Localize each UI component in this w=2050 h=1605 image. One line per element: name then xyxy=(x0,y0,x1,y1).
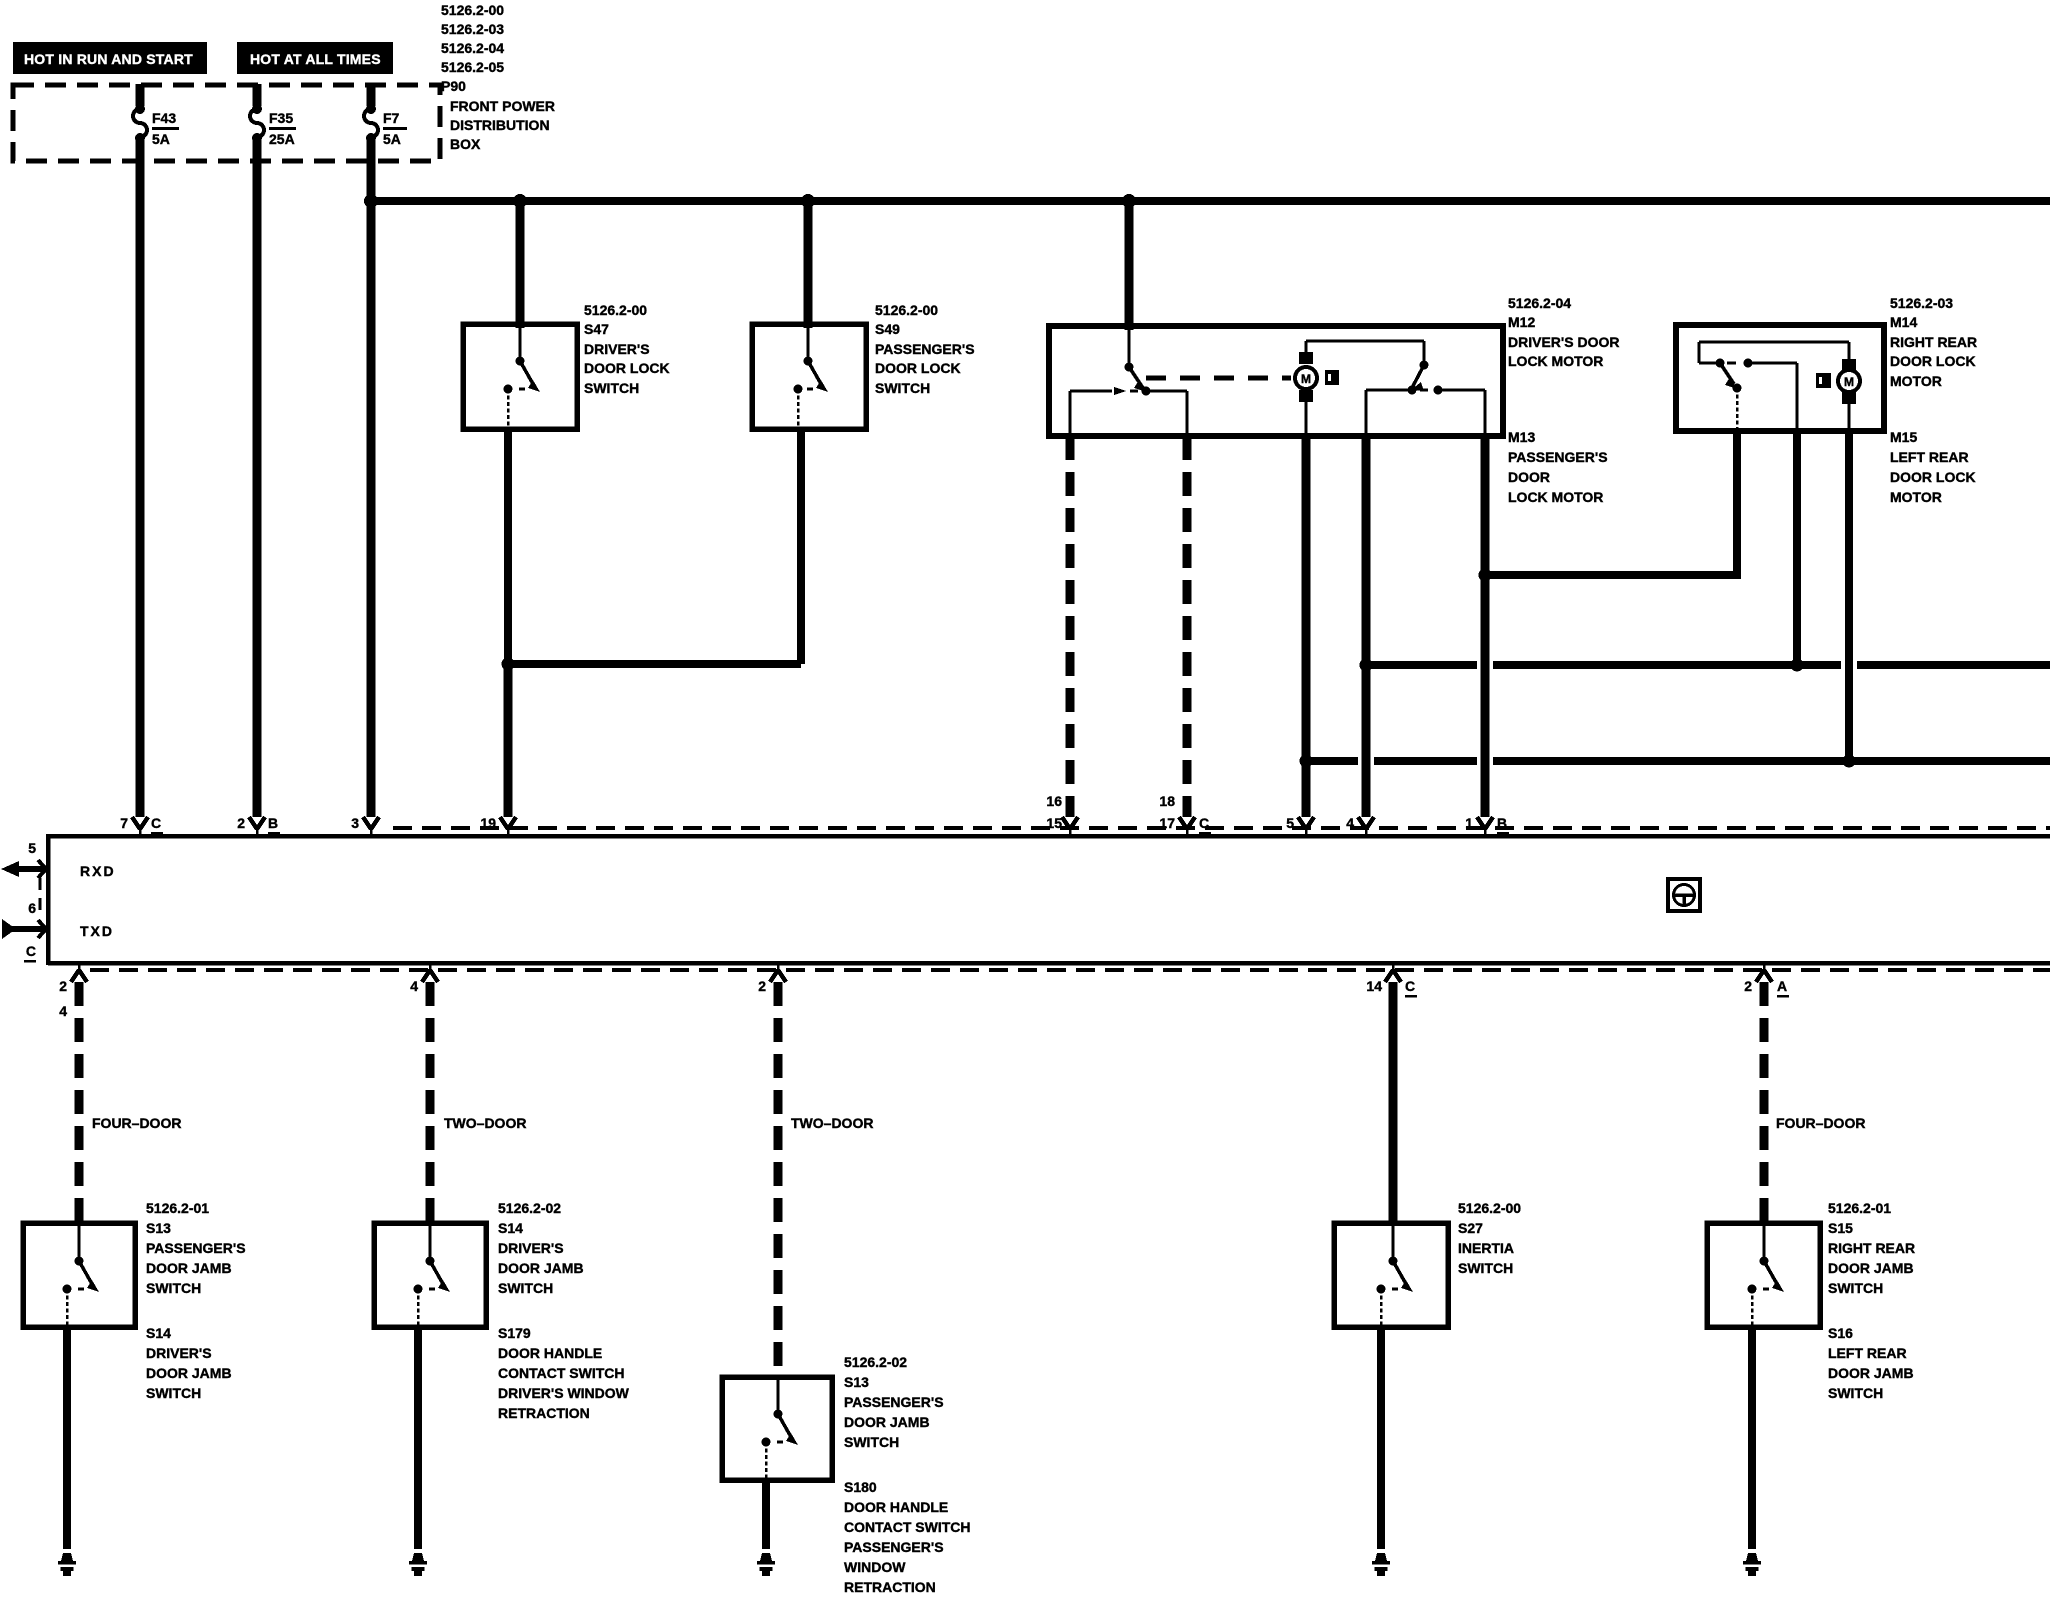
pin 1 arrow and label B xyxy=(1465,815,1509,836)
svg-text:S15: S15 xyxy=(1828,1220,1853,1236)
wire y575 horizontal to pin1 wire xyxy=(1485,571,1741,579)
P90 front power distribution box (dashed) xyxy=(13,85,440,161)
svg-text:RETRACTION: RETRACTION xyxy=(844,1579,936,1595)
svg-text:DOOR HANDLE: DOOR HANDLE xyxy=(844,1499,948,1515)
wire S47 output down xyxy=(504,429,512,664)
pin 6 TXD right arrow xyxy=(2,900,114,939)
svg-text:SWITCH: SWITCH xyxy=(1828,1385,1883,1401)
svg-text:5126.2-04: 5126.2-04 xyxy=(441,40,504,56)
svg-text:M: M xyxy=(1844,375,1854,389)
pin 14 arrow and label C xyxy=(1366,963,1417,998)
svg-text:DRIVER'S: DRIVER'S xyxy=(584,341,650,357)
wire dashed mechanical link switch to motor M12 xyxy=(1146,376,1291,381)
svg-text:PASSENGER'S: PASSENGER'S xyxy=(1508,449,1608,465)
wire y761 horizontal from pin5 xyxy=(1306,757,2050,765)
node junction M14-motor/y761 xyxy=(1843,755,1856,768)
wire pin2 to S13 two-door (dashed) xyxy=(774,982,783,1377)
svg-text:SWITCH: SWITCH xyxy=(1458,1260,1513,1276)
pin 2 arrow and label A (right) xyxy=(1744,963,1789,998)
svg-text:16: 16 xyxy=(1046,793,1062,809)
label S27 xyxy=(1458,1200,1521,1276)
svg-text:DRIVER'S WINDOW: DRIVER'S WINDOW xyxy=(498,1385,630,1401)
pin 5 arrow xyxy=(1286,815,1314,836)
svg-text:5126.2-02: 5126.2-02 xyxy=(498,1200,561,1216)
svg-text:S16: S16 xyxy=(1828,1325,1853,1341)
svg-text:RIGHT REAR: RIGHT REAR xyxy=(1890,334,1977,350)
wire M12 box to pin 16/15 (dashed) xyxy=(1066,436,1075,817)
svg-text:19: 19 xyxy=(480,815,496,831)
wire power bus xyxy=(371,197,2050,205)
svg-text:DOOR LOCK: DOOR LOCK xyxy=(1890,469,1976,485)
svg-text:LOCK MOTOR: LOCK MOTOR xyxy=(1508,353,1603,369)
svg-text:DOOR JAMB: DOOR JAMB xyxy=(146,1365,232,1381)
clutch glyph right of motor M12 xyxy=(1325,370,1339,385)
svg-text:PASSENGER'S: PASSENGER'S xyxy=(146,1240,246,1256)
svg-text:2: 2 xyxy=(59,978,67,994)
svg-text:3: 3 xyxy=(351,815,359,831)
svg-text:LEFT REAR: LEFT REAR xyxy=(1890,449,1969,465)
svg-text:S13: S13 xyxy=(146,1220,171,1236)
svg-text:INERTIA: INERTIA xyxy=(1458,1240,1514,1256)
svg-text:S14: S14 xyxy=(146,1325,171,1341)
inertia switch S27 xyxy=(1334,1223,1448,1327)
wire M13 to pin 1 xyxy=(1481,436,1490,817)
svg-text:5126.2-03: 5126.2-03 xyxy=(441,21,504,37)
node junction bus/S47 xyxy=(513,194,527,208)
switch M13 internal (right) xyxy=(1366,361,1485,435)
label S15 xyxy=(1828,1200,1915,1296)
svg-text:1: 1 xyxy=(1465,815,1473,831)
svg-text:2: 2 xyxy=(1744,978,1752,994)
pin 18/17 arrow and label C xyxy=(1159,793,1211,836)
svg-text:DOOR JAMB: DOOR JAMB xyxy=(844,1414,930,1430)
wire bus to M12 box xyxy=(1125,201,1134,330)
pin 3 arrow xyxy=(351,815,379,836)
wire stub from HOT AT ALL TIMES to fuse F35 xyxy=(253,84,262,106)
wire pin2/4 to S13 four-door (dashed) xyxy=(75,982,84,1223)
wire M12 box to pin 18/17 (dashed) xyxy=(1183,436,1192,817)
svg-text:SWITCH: SWITCH xyxy=(146,1280,201,1296)
svg-text:M12: M12 xyxy=(1508,314,1535,330)
wire M12 motor to pin 5 xyxy=(1302,436,1311,817)
power label HOT IN RUN AND START xyxy=(13,42,207,74)
wire dashed connector stub left xyxy=(39,878,42,912)
svg-text:FRONT POWER: FRONT POWER xyxy=(450,98,555,114)
label S16 xyxy=(1828,1325,1914,1401)
svg-text:S180: S180 xyxy=(844,1479,877,1495)
switch S47 driver's door lock switch xyxy=(463,324,577,429)
svg-text:CONTACT SWITCH: CONTACT SWITCH xyxy=(844,1519,971,1535)
wire motor M12 top loop to right switch xyxy=(1306,341,1424,363)
svg-text:S49: S49 xyxy=(875,321,900,337)
svg-text:DOOR JAMB: DOOR JAMB xyxy=(498,1260,584,1276)
svg-text:17: 17 xyxy=(1159,815,1175,831)
switch M12 internal (left) xyxy=(1070,328,1187,434)
wire stub from HOT IN RUN AND START to fuse F43 xyxy=(136,84,145,106)
svg-text:P90: P90 xyxy=(441,78,466,94)
svg-text:DOOR LOCK: DOOR LOCK xyxy=(584,360,670,376)
svg-text:F43: F43 xyxy=(152,110,176,126)
svg-text:S179: S179 xyxy=(498,1325,531,1341)
node junction pin5/y761 xyxy=(1300,755,1313,768)
svg-text:C: C xyxy=(1405,978,1415,994)
power label HOT AT ALL TIMES xyxy=(237,42,393,74)
wire pin4 to S14 (dashed) xyxy=(426,982,435,1223)
svg-text:5: 5 xyxy=(1286,815,1294,831)
wire pin2 to S15 (dashed) xyxy=(1760,982,1769,1223)
svg-text:5A: 5A xyxy=(383,131,401,147)
svg-text:CONTACT SWITCH: CONTACT SWITCH xyxy=(498,1365,625,1381)
svg-text:4: 4 xyxy=(59,1003,67,1019)
node junction F7/bus xyxy=(364,194,378,208)
wire joining S47/S49 outputs xyxy=(508,660,801,668)
svg-text:SWITCH: SWITCH xyxy=(584,380,639,396)
wire M14 centre leg down to y665 xyxy=(1793,431,1801,665)
SECTION: bus xyxy=(364,194,2050,208)
svg-text:C: C xyxy=(151,815,161,831)
wire M14 left leg down to y575 xyxy=(1733,431,1741,575)
svg-text:M13: M13 xyxy=(1508,429,1535,445)
pin 4 arrow (driver jamb) xyxy=(410,963,438,994)
svg-text:C: C xyxy=(1199,815,1209,831)
svg-text:M14: M14 xyxy=(1890,314,1917,330)
svg-text:M: M xyxy=(1301,372,1311,386)
svg-text:5A: 5A xyxy=(152,131,170,147)
svg-text:25A: 25A xyxy=(269,131,295,147)
svg-text:6: 6 xyxy=(28,900,36,916)
ground (S13 two-door) xyxy=(757,1553,775,1576)
jamb switch S13 (four-door passenger) xyxy=(23,1223,135,1327)
wire pin14 to S27 xyxy=(1389,982,1398,1223)
wire S15 to ground xyxy=(1748,1327,1756,1549)
fuse F7 5A xyxy=(364,104,407,147)
svg-text:WINDOW: WINDOW xyxy=(844,1559,906,1575)
svg-text:5126.2-02: 5126.2-02 xyxy=(844,1354,907,1370)
node junction M14-centre/y665 xyxy=(1791,659,1804,672)
svg-text:DOOR HANDLE: DOOR HANDLE xyxy=(498,1345,602,1361)
svg-text:DRIVER'S: DRIVER'S xyxy=(498,1240,564,1256)
svg-text:2: 2 xyxy=(237,815,245,831)
svg-text:18: 18 xyxy=(1159,793,1175,809)
motor assembly box M14/M15 xyxy=(1676,325,1884,431)
svg-text:DOOR LOCK: DOOR LOCK xyxy=(1890,353,1976,369)
svg-text:DOOR JAMB: DOOR JAMB xyxy=(1828,1260,1914,1276)
svg-text:HOT IN RUN AND START: HOT IN RUN AND START xyxy=(24,51,193,67)
svg-text:HOT AT ALL TIMES: HOT AT ALL TIMES xyxy=(250,51,381,67)
pin 5 RXD left arrow xyxy=(1,840,116,879)
svg-text:RIGHT REAR: RIGHT REAR xyxy=(1828,1240,1915,1256)
switch S49 passenger's door lock switch xyxy=(752,324,866,429)
svg-text:5126.2-00: 5126.2-00 xyxy=(584,302,647,318)
svg-text:SWITCH: SWITCH xyxy=(146,1385,201,1401)
svg-text:A: A xyxy=(1777,978,1787,994)
node junction bus/M12 xyxy=(1122,194,1136,208)
label S180 xyxy=(844,1479,971,1595)
wire S13 two-door to ground xyxy=(762,1480,770,1549)
svg-text:5126.2-05: 5126.2-05 xyxy=(441,59,504,75)
label S49 xyxy=(875,302,975,396)
motor M12 symbol xyxy=(1295,352,1317,434)
svg-text:SWITCH: SWITCH xyxy=(844,1434,899,1450)
node junction bus/S49 xyxy=(801,194,815,208)
wire y665 horizontal from pin4 xyxy=(1366,661,2050,669)
wire S14 to ground xyxy=(414,1327,422,1549)
pin 19 arrow xyxy=(480,815,516,836)
svg-text:5126.2-01: 5126.2-01 xyxy=(146,1200,209,1216)
svg-text:DRIVER'S: DRIVER'S xyxy=(146,1345,212,1361)
wire S27 to ground xyxy=(1377,1327,1385,1549)
svg-text:2: 2 xyxy=(758,978,766,994)
jamb switch S15 (right rear) xyxy=(1707,1223,1820,1327)
label M13 xyxy=(1508,429,1608,505)
SECTION: bottom xyxy=(23,963,1915,1595)
svg-text:FOUR–DOOR: FOUR–DOOR xyxy=(1776,1115,1865,1131)
ground (S15) xyxy=(1743,1553,1761,1576)
svg-text:DOOR: DOOR xyxy=(1508,469,1550,485)
label M15 xyxy=(1890,429,1976,505)
ground (S13 four-door) xyxy=(58,1553,76,1576)
wire fuse F7 to bus and module pin 3 xyxy=(367,138,376,817)
svg-text:B: B xyxy=(1497,815,1507,831)
svg-text:RXD: RXD xyxy=(80,863,116,879)
svg-text:TWO–DOOR: TWO–DOOR xyxy=(444,1115,526,1131)
svg-text:RETRACTION: RETRACTION xyxy=(498,1405,590,1421)
svg-text:PASSENGER'S: PASSENGER'S xyxy=(844,1394,944,1410)
label S13 two-door xyxy=(844,1354,944,1450)
wire bus to S47 xyxy=(516,201,525,328)
jamb switch S14 (two-door driver) xyxy=(374,1223,486,1327)
svg-text:B: B xyxy=(268,815,278,831)
wire to module pin 19 xyxy=(504,664,513,817)
wire S13 to ground xyxy=(63,1327,71,1549)
fuse F43 5A xyxy=(133,104,179,147)
svg-text:15: 15 xyxy=(1046,815,1062,831)
wire fuse F43 to module pin 7 xyxy=(136,138,145,817)
ground (S14 two-door) xyxy=(409,1553,427,1576)
svg-text:SWITCH: SWITCH xyxy=(498,1280,553,1296)
svg-text:F7: F7 xyxy=(383,110,400,126)
label S14 (shared ground note) xyxy=(146,1325,232,1401)
switch M14 internal xyxy=(1699,342,1849,429)
wire M14 motor leg down to y761 xyxy=(1845,431,1853,761)
label M14 xyxy=(1890,295,1977,389)
svg-text:5126.2-00: 5126.2-00 xyxy=(1458,1200,1521,1216)
label C (left connector) xyxy=(24,943,36,963)
svg-text:5126.2-00: 5126.2-00 xyxy=(875,302,938,318)
label S14 two-door xyxy=(498,1200,584,1296)
pin 7 arrow and label C xyxy=(120,815,163,836)
clutch glyph left of motor M14 xyxy=(1816,373,1831,388)
label P90 FRONT POWER DISTRIBUTION BOX xyxy=(441,2,555,152)
svg-text:BOX: BOX xyxy=(450,136,481,152)
label S13 four-door xyxy=(146,1200,246,1296)
svg-text:DRIVER'S DOOR: DRIVER'S DOOR xyxy=(1508,334,1619,350)
motor M14 symbol xyxy=(1838,342,1860,429)
svg-text:DISTRIBUTION: DISTRIBUTION xyxy=(450,117,550,133)
node junction pin4/y665 xyxy=(1360,659,1373,672)
label S179 xyxy=(498,1325,630,1421)
SECTION: switches xyxy=(463,201,975,817)
wire S49 output down xyxy=(797,429,805,664)
svg-text:LOCK MOTOR: LOCK MOTOR xyxy=(1508,489,1603,505)
steering wheel icon xyxy=(1668,879,1700,911)
pin 2 arrow and label B xyxy=(237,815,280,836)
wire M13 to pin 4 xyxy=(1362,436,1371,817)
svg-text:SWITCH: SWITCH xyxy=(875,380,930,396)
svg-text:5126.2-04: 5126.2-04 xyxy=(1508,295,1571,311)
node junction S47/S49 xyxy=(502,658,515,671)
SECTION: motors xyxy=(1049,201,2050,817)
svg-text:DOOR LOCK: DOOR LOCK xyxy=(875,360,961,376)
wire stub from HOT AT ALL TIMES to fuse F7 xyxy=(367,84,376,106)
SECTION: module xyxy=(1,793,2050,970)
svg-text:S27: S27 xyxy=(1458,1220,1483,1236)
motor assembly box M12/M13 xyxy=(1049,326,1503,436)
svg-text:5126.2-03: 5126.2-03 xyxy=(1890,295,1953,311)
node junction pin1/y575 xyxy=(1479,569,1492,582)
svg-text:5: 5 xyxy=(28,840,36,856)
wire connector dashed line (bottom) xyxy=(90,968,2050,972)
svg-text:MOTOR: MOTOR xyxy=(1890,373,1942,389)
pin 16/15 arrow xyxy=(1046,793,1078,836)
svg-text:M15: M15 xyxy=(1890,429,1917,445)
general module (door lock control unit) box xyxy=(48,834,2050,965)
svg-text:LEFT REAR: LEFT REAR xyxy=(1828,1345,1907,1361)
SECTION: top power xyxy=(13,2,555,817)
svg-text:S13: S13 xyxy=(844,1374,869,1390)
svg-text:5126.2-01: 5126.2-01 xyxy=(1828,1200,1891,1216)
svg-text:FOUR–DOOR: FOUR–DOOR xyxy=(92,1115,181,1131)
svg-text:14: 14 xyxy=(1366,978,1382,994)
label M12 xyxy=(1508,295,1619,369)
wire fuse F35 to module pin 2 xyxy=(253,138,262,817)
pin 2 arrow (passenger jamb two-door) xyxy=(758,963,786,994)
fuse F35 25A xyxy=(250,104,296,147)
svg-text:5126.2-00: 5126.2-00 xyxy=(441,2,504,18)
svg-text:4: 4 xyxy=(1346,815,1354,831)
ground (S27) xyxy=(1372,1553,1390,1576)
svg-text:PASSENGER'S: PASSENGER'S xyxy=(844,1539,944,1555)
pin 4 arrow xyxy=(1346,815,1374,836)
svg-text:SWITCH: SWITCH xyxy=(1828,1280,1883,1296)
svg-text:DOOR JAMB: DOOR JAMB xyxy=(1828,1365,1914,1381)
label S47 xyxy=(584,302,670,396)
svg-text:F35: F35 xyxy=(269,110,293,126)
svg-text:TXD: TXD xyxy=(80,923,114,939)
jamb switch S13 (two-door passenger) xyxy=(722,1377,832,1480)
svg-text:S47: S47 xyxy=(584,321,609,337)
svg-text:S14: S14 xyxy=(498,1220,523,1236)
svg-text:DOOR JAMB: DOOR JAMB xyxy=(146,1260,232,1276)
wire bus to S49 xyxy=(804,201,813,328)
svg-text:4: 4 xyxy=(410,978,418,994)
wire connector C dashed line (top) xyxy=(393,826,2050,830)
svg-text:C: C xyxy=(26,943,36,959)
svg-text:TWO–DOOR: TWO–DOOR xyxy=(791,1115,873,1131)
pin 2/4 arrow (bottom left) xyxy=(59,963,87,1019)
svg-text:MOTOR: MOTOR xyxy=(1890,489,1942,505)
svg-text:PASSENGER'S: PASSENGER'S xyxy=(875,341,975,357)
svg-text:7: 7 xyxy=(120,815,128,831)
